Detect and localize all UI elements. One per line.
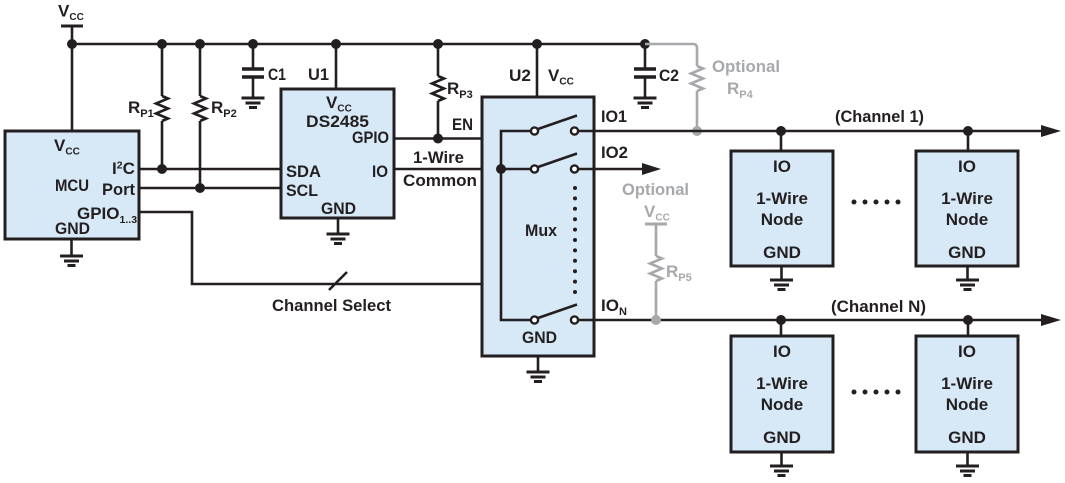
- wire: stub to node A: [780, 131, 783, 151]
- junction: Channel N / node C: [776, 315, 786, 325]
- capacitor C2: [634, 44, 679, 98]
- svg-text:U1: U1: [308, 65, 329, 84]
- junction: common / row2: [496, 164, 506, 174]
- ground: C2: [634, 98, 657, 108]
- svg-text:Mux: Mux: [525, 221, 558, 240]
- junction: RP4 / IO1 wire (gray): [692, 126, 702, 136]
- svg-text:1-Wire: 1-Wire: [756, 374, 808, 393]
- svg-text:SDA: SDA: [286, 162, 321, 181]
- resistor RP2: [194, 44, 237, 188]
- svg-text:IO1: IO1: [601, 107, 627, 126]
- 1-Wire Node block D (Channel N): [916, 336, 1018, 452]
- junction: RP2 / Port-SCL wire: [195, 183, 205, 193]
- ellipsis between channel-N nodes: [852, 390, 901, 395]
- svg-text:GPIO: GPIO: [352, 128, 389, 147]
- svg-text:C2: C2: [659, 66, 679, 85]
- bus slash: channel select: [329, 272, 347, 290]
- ground: U1: [327, 218, 350, 244]
- switch SW1 (IO1): [531, 116, 578, 135]
- svg-text:MCU: MCU: [55, 176, 89, 195]
- svg-text:Node: Node: [761, 210, 804, 229]
- svg-text:GND: GND: [948, 428, 986, 447]
- wire: IO1 / Channel 1 line: [578, 130, 1045, 133]
- label: 1-Wire Common: [403, 148, 477, 190]
- ground: C1: [242, 98, 265, 108]
- wire: MCU I2C to U1 SDA: [139, 168, 281, 171]
- ground: U2: [527, 356, 550, 382]
- svg-text:Node: Node: [946, 210, 989, 229]
- ground: node D: [956, 452, 979, 476]
- svg-text:Node: Node: [946, 395, 989, 414]
- resistor RP4 (optional, gray): [645, 44, 703, 131]
- wire: U1 GPIO to U2 EN: [394, 137, 482, 140]
- optional VCC supply (gray, above RP5): [622, 180, 689, 224]
- svg-text:GND: GND: [763, 428, 801, 447]
- svg-text:1-Wire: 1-Wire: [756, 189, 808, 208]
- wire: IO2 stub with arrow: [578, 168, 646, 171]
- arrowhead: Channel N: [1041, 314, 1061, 326]
- IC U1 DS2485: [281, 89, 394, 218]
- svg-text:1-Wire: 1-Wire: [941, 189, 993, 208]
- 1-Wire Node block C (Channel N): [731, 336, 833, 452]
- junction: rail / RP2: [195, 39, 205, 49]
- wire: rail to U2 VCC pin: [536, 44, 539, 97]
- wire: VCC top rail: [72, 43, 645, 46]
- power VCC (top-left supply symbol): [58, 2, 84, 27]
- 1-Wire Node block B (Channel 1): [916, 151, 1018, 266]
- svg-text:(Channel N): (Channel N): [831, 297, 926, 316]
- wire: stub to node B: [967, 131, 970, 151]
- svg-text:IO: IO: [773, 157, 791, 176]
- svg-text:Optional: Optional: [622, 180, 689, 199]
- junction: RP1 / I2C-SDA wire: [157, 164, 167, 174]
- wire: U1 IO (1-Wire common) into U2: [394, 168, 501, 171]
- svg-text:IO2: IO2: [601, 143, 628, 162]
- svg-text:GND: GND: [763, 243, 801, 262]
- capacitor C1: [242, 44, 286, 98]
- ground: node C: [770, 452, 793, 476]
- arrowhead: Channel 1: [1041, 125, 1061, 137]
- ground: MCU: [60, 239, 83, 266]
- svg-text:GND: GND: [55, 219, 90, 238]
- svg-text:C1: C1: [268, 65, 286, 84]
- wire: MCU Port to U1 SCL: [139, 187, 281, 190]
- junction: Channel 1 / node A: [776, 126, 786, 136]
- junction: rail / U1 VCC: [331, 39, 341, 49]
- junction: RP5 / Channel N wire (gray): [651, 315, 661, 325]
- svg-text:Optional: Optional: [712, 57, 780, 76]
- wire: mux common vertical: [501, 131, 531, 320]
- 1-Wire Node block A (Channel 1): [731, 151, 833, 266]
- wire: rail to U1 VCC pin: [335, 44, 338, 89]
- junction: RP3 / EN wire: [433, 134, 443, 144]
- svg-text:IO: IO: [958, 157, 976, 176]
- wire: MCU GPIO channel-select to U2: [139, 212, 482, 284]
- ellipsis between channel-1 nodes: [852, 200, 901, 205]
- svg-text:IO: IO: [958, 342, 976, 361]
- junction: rail / RP3: [433, 39, 443, 49]
- ground: node A: [770, 266, 793, 290]
- switch SW3 (ION): [531, 305, 578, 324]
- svg-text:1-Wire: 1-Wire: [941, 374, 993, 393]
- junction: rail / C2: [640, 39, 650, 49]
- switch SW2 (IO2): [531, 154, 578, 173]
- wire: stub to node C: [780, 320, 783, 336]
- MCU block: [5, 131, 139, 239]
- resistor RP5 (optional, gray): [650, 224, 692, 320]
- svg-text:(Channel 1): (Channel 1): [835, 107, 924, 126]
- svg-text:Port: Port: [102, 180, 135, 199]
- svg-text:GND: GND: [321, 199, 356, 218]
- wire: mux common stub row2: [501, 168, 531, 171]
- resistor RP3: [432, 44, 473, 139]
- svg-text:Common: Common: [403, 171, 477, 190]
- svg-text:U2: U2: [509, 66, 531, 85]
- label: Optional RP4 (gray): [712, 57, 780, 101]
- svg-text:IO: IO: [773, 342, 791, 361]
- junction: rail / C1: [248, 39, 258, 49]
- wire: ION / Channel N line: [578, 319, 1045, 322]
- resistor RP1: [128, 44, 168, 169]
- svg-text:GND: GND: [948, 243, 986, 262]
- svg-text:I2C: I2C: [112, 159, 135, 178]
- svg-text:1-Wire: 1-Wire: [413, 148, 464, 167]
- junction: Channel 1 / node B: [963, 126, 973, 136]
- junction: rail / MCU VCC: [67, 39, 77, 49]
- mux U2 block: [482, 97, 594, 356]
- svg-text:SCL: SCL: [286, 181, 318, 200]
- junction: rail / U2 VCC: [532, 39, 542, 49]
- svg-text:Channel Select: Channel Select: [272, 296, 391, 315]
- wire: stub to node D: [967, 320, 970, 336]
- arrowhead: IO2: [642, 163, 661, 175]
- junction: rail / RP1: [157, 39, 167, 49]
- junction: Channel N / node D: [963, 315, 973, 325]
- ground: node B: [956, 266, 979, 290]
- svg-text:IO: IO: [372, 162, 388, 181]
- svg-text:EN: EN: [452, 115, 473, 134]
- svg-text:Node: Node: [761, 395, 804, 414]
- svg-text:GND: GND: [522, 328, 557, 347]
- dotted ellipsis inside mux: [573, 186, 577, 294]
- wire: VCC symbol down to top rail and on to MCU VCC pin: [71, 26, 74, 131]
